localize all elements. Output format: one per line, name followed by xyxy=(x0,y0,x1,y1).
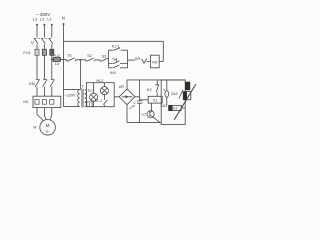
svg-text:VT: VT xyxy=(141,113,146,117)
svg-text:KM: KM xyxy=(110,71,116,75)
svg-text:S3: S3 xyxy=(102,54,107,58)
svg-text:K2: K2 xyxy=(173,107,177,111)
svg-text:KM: KM xyxy=(152,60,157,64)
svg-text:HL2: HL2 xyxy=(96,79,103,83)
svg-text:L2: L2 xyxy=(40,17,45,22)
svg-text:FU1: FU1 xyxy=(23,50,31,55)
svg-text:S2: S2 xyxy=(87,54,92,58)
svg-text:K1: K1 xyxy=(153,99,157,103)
svg-text:KR: KR xyxy=(135,57,141,61)
svg-text:S1: S1 xyxy=(67,53,72,57)
svg-text:S: S xyxy=(163,88,165,92)
svg-text:K2: K2 xyxy=(147,88,152,92)
svg-text:N: N xyxy=(62,16,65,21)
svg-text:UR: UR xyxy=(119,85,125,89)
svg-text:L3: L3 xyxy=(33,17,38,22)
svg-text:M: M xyxy=(33,125,36,129)
svg-text:M: M xyxy=(46,123,50,128)
svg-text:K1-2: K1-2 xyxy=(95,99,102,103)
svg-text:KM: KM xyxy=(29,81,35,86)
svg-text:Q: Q xyxy=(31,40,34,44)
svg-text:SA2: SA2 xyxy=(171,92,178,96)
svg-text:~220V: ~220V xyxy=(64,92,76,97)
svg-text:3~: 3~ xyxy=(45,128,50,133)
svg-text:L1: L1 xyxy=(47,17,52,22)
svg-text:SA1: SA1 xyxy=(160,104,167,108)
svg-text:1A: 1A xyxy=(55,62,60,66)
svg-text:EL1: EL1 xyxy=(88,88,94,92)
svg-text:KK: KK xyxy=(23,99,29,104)
